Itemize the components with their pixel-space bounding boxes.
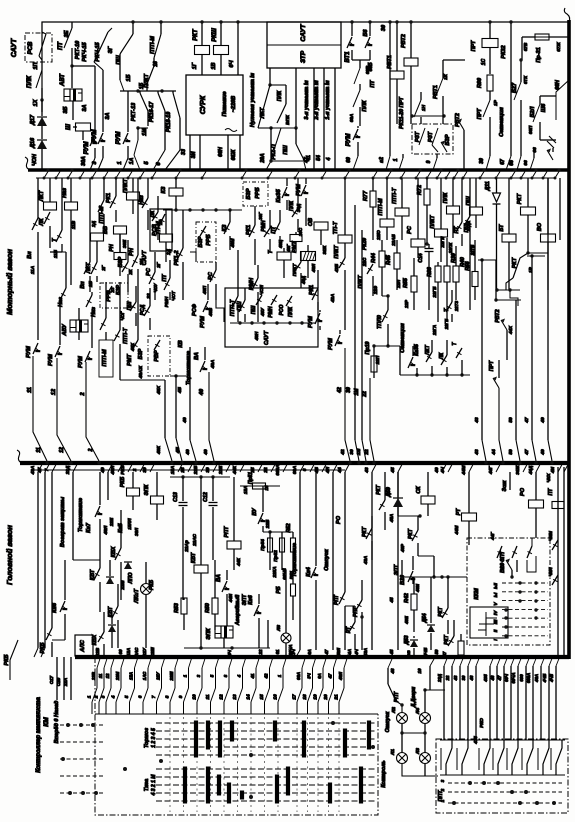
svg-text:66: 66 [509,160,515,166]
svg-text:Ш: Ш [66,124,72,130]
svg-text:ПРТ: ПРТ [471,40,477,51]
svg-text:ПЛКТ: ПЛКТ [358,274,364,288]
svg-text:R53: R53 [174,603,180,613]
svg-text:42Б: 42Б [334,263,339,273]
svg-text:13: 13 [232,694,237,700]
svg-text:ПТП-М: ПТП-М [102,349,108,367]
KKM step box [470,607,508,638]
svg-text:СУРК: СУРК [200,95,207,114]
wire to Sh coil [72,101,74,120]
Tormoz rows [156,722,375,724]
contact 4M r3 [552,540,558,550]
svg-text:30А: 30А [81,156,87,166]
svg-text:66Н: 66Н [218,147,224,157]
svg-text:11: 11 [205,694,210,699]
svg-text:Возврат защиты: Возврат защиты [60,497,66,548]
svg-text:ПРТ: ПРТ [489,360,495,371]
svg-text:Ш6: Ш6 [541,103,547,112]
svg-text:40Е: 40Е [404,616,409,625]
svg-text:2Д: 2Д [166,248,171,256]
KM table border [95,657,378,815]
relay box RZT [412,124,453,154]
svg-text:6А: 6А [307,649,312,655]
svg-text:РКТ-13: РКТ-13 [131,103,137,121]
svg-text:44М: 44М [461,465,466,475]
svg-text:50: 50 [434,649,439,654]
svg-text:3Ч: 3Ч [307,672,312,678]
wire 22D [72,472,74,560]
svg-text:11Б: 11Б [53,249,58,258]
svg-text:22П: 22П [375,355,380,365]
svg-text:6А: 6А [317,673,322,679]
svg-text:40П: 40П [202,285,207,295]
svg-text:40: 40 [203,449,208,456]
block ALS [75,635,93,656]
wire top rail [42,22,569,100]
svg-text:Л8: Л8 [276,625,281,632]
svg-text:43А: 43А [363,648,368,657]
svg-text:РК20: РК20 [362,238,368,250]
svg-text:РВТ1: РВТ1 [433,85,439,99]
svg-text:РСВ: РСВ [28,41,34,54]
svg-text:РКТ: РКТ [362,526,368,537]
svg-text:Секвенция: Секвенция [499,106,505,136]
svg-text:РК1-2: РК1-2 [174,251,180,266]
relay box KKM [467,538,550,645]
svg-text:КВТ: КВТ [191,552,197,563]
lamp L3 [420,753,431,764]
svg-text:10: 10 [417,668,422,674]
svg-text:С20: С20 [56,677,61,686]
svg-text:Торможение: Торможение [292,543,298,577]
block SAUT ZTR [267,22,341,68]
svg-text:Тормоз: Тормоз [144,728,150,748]
svg-text:ЧИМ: ЧИМ [548,531,553,541]
svg-text:Д53: Д53 [404,635,410,645]
svg-text:4И: 4И [550,466,555,474]
wires 40K 4B 40 [120,379,165,381]
svg-text:Кн6: Кн6 [52,602,58,613]
wire 49 [547,178,549,440]
svg-text:47: 47 [328,673,333,679]
svg-text:ПЛКТ: ПЛКТ [334,244,340,258]
svg-text:12: 12 [51,389,57,395]
wire from SAUT box a [269,68,271,85]
lamp L2 [397,713,408,724]
svg-text:Торможение: Торможение [78,498,84,532]
svg-text:40Н: 40Н [254,331,259,341]
svg-text:49Я: 49Я [338,671,343,681]
resistor R51 [291,584,296,596]
svg-text:3: 3 [101,695,106,698]
svg-text:РКБ: РКБ [40,642,46,653]
svg-text:12: 12 [59,447,65,453]
svg-text:Питание: Питание [222,91,228,116]
svg-text:47: 47 [324,649,329,655]
rail y178 [36,177,555,179]
svg-text:30: 30 [381,25,387,31]
svg-text:47: 47 [442,651,447,657]
bus463 stubs [38,465,42,473]
svg-text:67: 67 [500,159,506,165]
svg-text:44Х: 44Х [508,325,513,335]
svg-text:РУМ: РУМ [84,141,90,155]
bus 657 (head/controller boundary) [75,655,569,659]
svg-text:РО: РО [336,515,342,524]
svg-text:РС: РС [407,225,413,234]
wire 43A l [37,472,39,648]
svg-text:R42: R42 [404,593,410,603]
svg-text:22ГБ: 22ГБ [432,286,437,299]
svg-text:40: 40 [434,467,439,474]
PPT contacts [446,740,452,775]
Tyaga bars [183,767,187,804]
svg-text:45: 45 [389,649,394,655]
svg-text:РКО: РКО [479,718,484,728]
svg-text:22Л: 22Л [396,279,401,289]
svg-text:1Б: 1Б [139,82,145,89]
svg-text:21: 21 [334,694,339,701]
svg-text:Д16: Д16 [30,137,36,149]
svg-text:44Д: 44Д [528,465,533,475]
svg-text:1С: 1С [481,58,487,65]
svg-text:60: 60 [118,649,123,655]
svg-text:Л3: Л3 [415,748,420,755]
wire 1M [361,230,363,440]
svg-text:43: 43 [474,417,479,424]
svg-text:1Н: 1Н [421,104,426,111]
svg-text:в2: в2 [379,157,385,163]
wire 6Ch [237,22,239,75]
rail y648 [184,647,270,649]
lamp L4 [420,713,431,724]
svg-text:44К: 44К [236,557,241,567]
svg-text:РКТ: РКТ [517,193,523,204]
svg-text:4ЧБ: 4ЧБ [423,648,428,657]
svg-text:Ы: Ы [493,592,498,597]
svg-text:22У: 22У [156,671,161,681]
svg-text:1: 1 [87,695,92,698]
svg-text:ЭПК: ЭПК [144,484,150,496]
SAUT block rail [230,322,315,324]
relay box BZR RRB [196,222,216,262]
svg-text:Моторный вагон: Моторный вагон [5,249,14,315]
svg-text:22У: 22У [142,647,147,657]
svg-text:22Р: 22Р [404,299,409,309]
svg-text:РУМ: РУМ [328,338,334,350]
coil PTP-M 2 [91,233,104,241]
svg-text:43: 43 [364,467,369,474]
svg-text:44Г: 44Г [488,465,493,475]
svg-text:1Р: 1Р [493,99,498,106]
svg-text:1М: 1М [356,449,361,456]
svg-text:ПЛКТ: ПЛКТ [123,178,129,193]
svg-text:ЭПК: ЭПК [206,628,212,640]
wire 43 [481,260,483,440]
coil RKT b [458,641,464,655]
svg-text:С17: С17 [49,675,54,684]
svg-text:15: 15 [259,694,264,700]
svg-text:22Б: 22Б [265,519,270,529]
svg-text:12: 12 [219,694,224,700]
wire 66 bus [533,148,535,158]
svg-text:30Ж: 30Ж [515,465,520,475]
right edge hook top [564,8,569,22]
svg-text:ЧИХ: ЧИХ [546,472,551,482]
svg-text:ПРТ: ПРТ [477,108,483,119]
svg-text:5: 5 [124,695,129,698]
svg-text:45: 45 [389,597,394,604]
svg-text:47: 47 [497,675,502,681]
svg-text:Л2: Л2 [391,707,396,714]
svg-text:23: 23 [110,287,115,294]
KM contact row [97,659,100,669]
svg-text:ЧОУ: ЧОУ [153,282,158,292]
svg-text:С12: С12 [203,492,209,502]
svg-text:РС: РС [146,267,152,276]
KKM top contacts [497,546,502,558]
svg-text:42: 42 [337,387,343,394]
svg-text:60А: 60А [349,113,354,122]
svg-text:БЗР: БЗР [198,236,204,247]
svg-text:22АС: 22АС [192,534,197,547]
svg-text:608А: 608А [526,673,531,683]
svg-text:ПЛК: ПЛК [289,200,295,211]
svg-text:10: 10 [192,694,197,700]
svg-text:ВА: ВА [194,352,200,360]
svg-text:1-я уставка Iя: 1-я уставка Iя [325,80,331,120]
svg-text:40Ц: 40Ц [278,239,283,249]
svg-text:РВТ2: РВТ2 [495,309,501,322]
Tyaga rows [156,768,375,770]
svg-text:41: 41 [250,673,255,679]
svg-text:РУМ: РУМ [200,316,206,328]
svg-text:Д17: Д17 [30,114,36,126]
wire 40 [107,472,109,500]
svg-text:Кн6: Кн6 [248,595,254,604]
svg-text:50: 50 [508,417,513,423]
svg-text:22Ш: 22Ш [150,647,155,658]
svg-text:6ТК: 6ТК [523,75,528,84]
bus 463 end hook [17,450,22,463]
svg-text:22: 22 [364,449,369,456]
svg-text:40АЖ: 40АЖ [138,365,143,379]
bus 170 end hook [25,157,30,170]
svg-text:46А: 46А [534,674,539,683]
svg-text:САУТ: САУТ [11,38,18,57]
svg-text:3-я уставка Iя: 3-я уставка Iя [304,80,310,120]
svg-text:30: 30 [479,158,485,164]
svg-text:ККМ: ККМ [474,588,480,600]
svg-text:11: 11 [98,673,103,678]
svg-text:ВО: ВО [537,222,543,231]
svg-text:Л1: Л1 [390,749,395,756]
svg-text:Контроль: Контроль [381,760,387,787]
svg-text:ПЛК: ПЛК [27,75,33,88]
svg-text:Пр54: Пр54 [260,539,265,551]
svg-text:47: 47 [524,449,529,456]
svg-text:3И: 3И [191,151,197,158]
svg-text:40В: 40В [406,650,411,658]
svg-text:22ПК: 22ПК [448,242,453,254]
svg-text:БЗР: БЗР [246,188,252,199]
svg-text:30Г: 30Г [258,212,263,220]
svg-text:РКТ: РКТ [376,484,382,494]
svg-text:46: 46 [469,675,474,681]
svg-text:R55: R55 [403,277,409,288]
svg-text:49Я: 49Я [336,647,341,657]
svg-text:РРБ: РРБ [255,187,261,198]
svg-text:R45: R45 [386,254,392,265]
svg-text:ПТП-М: ПТП-М [378,198,384,216]
SAUT ustavka wires [313,68,315,170]
svg-text:45: 45 [390,467,395,474]
button Kn35 2 [408,357,413,368]
bus463 entry dots [45,461,48,464]
svg-text:ПЛКТ: ПЛКТ [430,214,436,228]
svg-text:РМН: РМН [268,306,274,318]
svg-text:15А: 15А [243,486,248,494]
svg-text:Д54: Д54 [422,613,428,623]
svg-text:1М: 1М [142,128,148,136]
svg-text:R52: R52 [286,523,292,532]
svg-text:22М: 22М [120,580,125,590]
svg-text:ПТП-Т: ПТП-Т [392,187,398,204]
svg-text:42: 42 [340,449,345,456]
svg-text:БЗР: БЗР [138,348,144,359]
svg-text:1М: 1М [354,388,360,396]
svg-text:60ЧА: 60ЧА [511,673,516,684]
rail y375 [400,374,470,376]
svg-text:РМТ: РМТ [127,354,133,366]
svg-text:КВ: КВ [178,340,184,347]
svg-text:40В: 40В [208,307,213,317]
svg-text:7: 7 [151,695,156,698]
svg-text:ЛК: ЛК [39,218,45,227]
svg-text:ПШ: ПШ [251,306,257,315]
svg-text:ПТ: ПТ [162,274,168,282]
svg-text:РК16-17: РК16-17 [149,101,155,122]
wire 1 to bus [402,154,404,158]
svg-text:КнЗ5: КнЗ5 [276,188,282,202]
rail y470 [32,469,345,471]
svg-text:54: 54 [316,155,322,161]
svg-text:РПТ: РПТ [224,526,230,538]
svg-text:РКЧ-15: РКЧ-15 [82,41,88,61]
svg-text:РК11-20 ПРТ: РК11-20 ПРТ [399,96,405,129]
SAUT dash-dot box [25,33,52,62]
svg-text:50: 50 [508,449,513,455]
svg-text:2: 2 [80,392,86,396]
svg-text:19: 19 [313,694,318,700]
svg-text:2: 2 [94,695,99,699]
svg-text:~220В: ~220В [231,96,237,112]
svg-text:22ГИ: 22ГИ [440,236,445,249]
svg-text:Кн35: Кн35 [414,344,420,356]
svg-text:8: 8 [165,695,170,698]
svg-text:60А: 60А [296,672,301,680]
svg-text:РПТ: РПТ [334,594,340,605]
svg-text:43А: 43А [363,556,368,565]
svg-text:РУМ: РУМ [78,356,84,368]
svg-text:БЗР: БЗР [118,256,124,267]
svg-text:47: 47 [524,417,529,424]
svg-text:КЗ: КЗ [161,186,167,193]
svg-text:40Д: 40Д [301,276,306,285]
svg-text:ЫI: ЫI [493,582,498,589]
svg-text:Д11: Д11 [485,181,491,191]
svg-text:2Г: 2Г [156,261,161,269]
diode tri b [108,625,116,632]
svg-text:Л4: Л4 [415,708,420,715]
wire 50 [495,260,497,300]
svg-text:РКТ-10: РКТ-10 [75,41,81,59]
lamp L1 [397,753,408,764]
lamp wires [401,724,403,752]
svg-text:РКШ: РКШ [212,28,218,42]
svg-text:ЗГ: ЗГ [108,46,114,54]
svg-text:ЗПТ: ЗПТ [394,564,400,575]
svg-text:ПЛК: ПЛК [443,192,449,203]
svg-text:1АС: 1АС [142,671,147,680]
jog b [190,252,196,262]
wire x42 upper [42,22,46,34]
svg-text:Пр19: Пр19 [365,341,371,354]
svg-text:РМН: РМН [261,220,267,232]
svg-text:Д59: Д59 [386,487,392,498]
svg-text:22ГБ: 22ГБ [444,319,449,330]
svg-text:ПШ: ПШ [283,145,289,155]
svg-text:БЗР: БЗР [445,134,451,145]
svg-text:4ЧБ: 4ЧБ [542,674,547,683]
relay box RRB l [100,283,128,308]
svg-text:ПТ: ПТ [548,488,554,496]
svg-text:22ТЗ: 22ТЗ [454,301,459,312]
svg-text:43: 43 [453,675,458,681]
svg-text:22А: 22А [63,678,68,687]
svg-text:1Г: 1Г [192,62,198,69]
svg-text:30Е: 30Е [122,239,127,248]
svg-text:30: 30 [346,387,352,393]
wire 11 [37,178,39,218]
svg-text:РВТ1: РВТ1 [387,55,393,69]
relay box BZR RRB 2 [243,182,268,206]
wire x72 mid [71,48,73,88]
svg-text:22Д: 22Д [437,674,442,683]
svg-text:43: 43 [474,449,479,456]
svg-text:ВУ: ВУ [252,507,258,516]
KM table top line [95,713,378,715]
svg-text:Пр52: Пр52 [273,550,278,562]
svg-text:33: 33 [181,149,187,155]
svg-text:ЗТР: ЗТР [300,50,307,63]
svg-text:42: 42 [264,673,269,679]
svg-text:22АБ: 22АБ [391,233,396,246]
svg-text:КМ: КМ [43,717,50,727]
rail y346 [374,345,400,347]
svg-text:Вп: Вп [80,281,86,289]
svg-text:ЧОЯ: ЧОЯ [259,284,264,295]
svg-text:ЧОТ: ЧОТ [171,290,176,301]
svg-text:40: 40 [182,417,187,424]
svg-text:РУМ: РУМ [296,184,302,196]
svg-text:40И: 40И [415,583,420,593]
svg-text:Нулевая уставка Iя: Нулевая уставка Iя [250,72,256,127]
KKM contact rows [502,582,548,584]
svg-text:1: 1 [117,161,123,164]
SURK out wires [189,135,191,170]
svg-text:14: 14 [246,694,251,700]
